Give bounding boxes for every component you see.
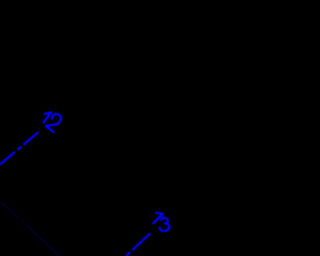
digit 3 of 13	[160, 218, 170, 231]
digit 1 of 13	[153, 213, 163, 223]
dimension text 12 (stick font strokes)	[44, 113, 61, 133]
digit 2 of 12	[46, 114, 61, 132]
wire: leader A long dash 1	[0, 152, 15, 165]
wire: navy line long dash 2	[26, 225, 60, 256]
wire: leader A dot	[18, 147, 22, 150]
leader line for dimension 12 (blue dash-dot)	[0, 132, 39, 164]
digit 1 of 12	[44, 113, 52, 123]
dimension text 13 (stick font strokes)	[153, 213, 169, 231]
wire: leader B dot	[126, 252, 130, 256]
wire: leader B long dash	[132, 233, 150, 250]
wire: leader A long dash 2	[23, 132, 38, 145]
wire: navy line dot	[21, 220, 24, 223]
leader line for dimension 13 (blue dash-dot)	[126, 233, 150, 256]
faint navy line (lower-left dash-dot centerline)	[1, 202, 60, 256]
wire: navy line long dash 1	[1, 202, 19, 219]
